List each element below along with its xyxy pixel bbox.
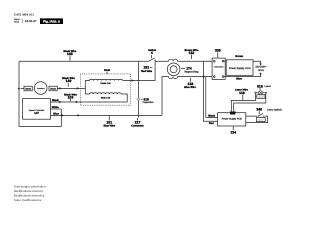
label Black (PCB lead)	[208, 114, 215, 117]
label 336	[215, 48, 221, 58]
svg-text:50Hz: 50Hz	[258, 69, 264, 72]
svg-text:Fig. /Abb. 6: Fig. /Abb. 6	[43, 20, 60, 24]
svg-text:Connector: Connector	[214, 66, 224, 69]
svg-text:134: 134	[230, 131, 236, 135]
wire: left brush lead	[21, 87, 24, 90]
wire: blue wire 151	[51, 114, 163, 117]
svg-text:Blue: Blue	[236, 77, 242, 80]
connector 336	[212, 58, 225, 79]
footer notes	[14, 185, 45, 202]
svg-text:Field: Field	[104, 69, 110, 72]
wire: laser switch loop	[246, 116, 268, 123]
svg-text:Capacitor: Capacitor	[143, 101, 154, 104]
svg-text:Stand: Stand	[14, 18, 20, 21]
label Brown	[235, 55, 243, 58]
label 133 Blue Wire	[184, 78, 196, 89]
svg-text:152: 152	[143, 66, 149, 70]
label 151 Blue Wire	[103, 116, 115, 128]
wire: blue wire 133 (ring bottom)	[162, 75, 214, 115]
svg-text:Modifications réservées: Modifications réservées	[14, 194, 44, 197]
label Red (PCB lead)	[209, 122, 214, 125]
wire: red feed to PCB	[203, 61, 217, 121]
label mains voltage 220-240V~ 50Hz	[255, 66, 267, 72]
figure label box Fig./Abb. 6	[40, 18, 63, 24]
wire: brown mains lead	[224, 61, 262, 65]
label 616 Laser	[257, 84, 271, 90]
svg-text:Brake Coil: Brake Coil	[101, 82, 111, 85]
svg-text:Änderungen vorbehalten: Änderungen vorbehalten	[14, 185, 45, 188]
svg-text:Speed Controller: Speed Controller	[29, 109, 45, 112]
svg-text:Modifications reserved: Modifications reserved	[14, 190, 43, 193]
svg-text:133: 133	[188, 82, 194, 86]
label 134	[230, 126, 236, 134]
label Black Wire 153	[64, 93, 77, 101]
label Laser Wire 118	[235, 89, 248, 101]
stand/issue date block	[14, 18, 37, 23]
label Black Wire 148	[63, 50, 76, 61]
battery DC 3V (laser switch)	[256, 118, 265, 122]
svg-text:Laser Switch: Laser Switch	[267, 108, 282, 111]
svg-text:Connector: Connector	[131, 125, 144, 128]
switch 4	[149, 58, 156, 61]
svg-text:DC 3V: DC 3V	[258, 96, 263, 98]
svg-text:Laser: Laser	[265, 85, 271, 88]
svg-text:Issue: Issue	[14, 21, 19, 24]
armature	[34, 82, 47, 95]
svg-text:Main Coil: Main Coil	[101, 97, 110, 100]
wire: blue mains lead	[224, 72, 262, 76]
svg-text:White: White	[52, 106, 59, 109]
label Switch 4	[148, 49, 156, 59]
label 340 Laser Switch	[256, 108, 281, 115]
svg-text:147: 147	[34, 112, 39, 115]
svg-text:Blue: Blue	[53, 112, 59, 115]
svg-text:132: 132	[189, 51, 195, 55]
svg-text:Blue Wire: Blue Wire	[103, 125, 115, 128]
svg-text:615: 615	[144, 97, 149, 101]
magnet ring 274	[167, 63, 180, 76]
speed controller 147	[23, 99, 51, 120]
svg-text:Salvo modificaciones: Salvo modificaciones	[14, 199, 41, 202]
field assembly dashed box	[81, 74, 131, 105]
svg-text:217: 217	[135, 121, 141, 125]
node: left edge junction	[18, 87, 21, 89]
wire: laser wire 118 pair	[231, 94, 265, 112]
laser 616	[255, 91, 267, 95]
svg-text:148: 148	[67, 52, 73, 56]
svg-text:Red: Red	[209, 122, 214, 125]
svg-text:Black: Black	[52, 99, 59, 102]
wire: black feed to PCB	[206, 77, 218, 118]
svg-text:Brush: Brush	[50, 87, 56, 90]
power supply cord	[226, 60, 253, 76]
svg-text:Red Wire: Red Wire	[141, 70, 152, 73]
svg-text:616: 616	[257, 84, 263, 88]
svg-text:4: 4	[151, 51, 153, 55]
svg-text:Black: Black	[208, 114, 215, 117]
svg-text:Armature: Armature	[37, 88, 44, 90]
wire: field splitter	[84, 81, 87, 95]
svg-text:340: 340	[256, 108, 262, 112]
label Field	[104, 69, 110, 74]
wire: brown wire 132 (ring top)	[155, 59, 214, 61]
label 152 Red Wire	[141, 66, 152, 73]
svg-text:336: 336	[215, 48, 221, 52]
capacitor 615	[137, 61, 140, 117]
svg-text:153: 153	[68, 95, 74, 99]
label Brown Wire 132	[184, 49, 198, 59]
wire: black wire 153 (controller to main coil)	[51, 94, 128, 103]
svg-text:118: 118	[239, 91, 245, 95]
label 274 Magnet Ring	[181, 67, 199, 74]
brush B1	[24, 86, 32, 91]
svg-text:18-03-07: 18-03-07	[25, 20, 37, 23]
svg-text:149: 149	[66, 79, 72, 83]
brush B2	[49, 86, 57, 91]
label Black Wire 149	[62, 77, 75, 87]
main coil	[85, 93, 121, 99]
svg-text:Power Supply Cord: Power Supply Cord	[229, 67, 251, 70]
brake coil	[85, 79, 122, 84]
svg-text:220-240V~: 220-240V~	[255, 66, 267, 69]
title part number	[14, 13, 34, 16]
power supply PCB 134	[218, 112, 246, 127]
svg-text:151: 151	[106, 121, 112, 125]
connector 217 node	[131, 118, 144, 127]
wire: left return loop	[19, 61, 61, 126]
label 615 Capacitor	[141, 97, 154, 104]
wire: black wire 148 (top supply wire)	[19, 60, 149, 63]
svg-text:Brush: Brush	[25, 87, 31, 90]
svg-text:Power Supply PCB: Power Supply PCB	[222, 117, 242, 120]
svg-text:274: 274	[186, 67, 192, 71]
battery DC 3V (laser)	[257, 95, 265, 99]
svg-text:3 601 M03 101: 3 601 M03 101	[14, 13, 34, 16]
wire: white wire	[51, 108, 62, 111]
laser switch 340	[258, 113, 265, 116]
svg-text:]: ]	[22, 18, 23, 23]
svg-text:Blue Wire: Blue Wire	[184, 86, 196, 89]
svg-text:Brown: Brown	[235, 55, 243, 58]
svg-text:DC 3V: DC 3V	[258, 119, 263, 121]
wire: black wire 149 (brush to field)	[57, 87, 85, 90]
label Black (controller lead)	[52, 99, 59, 102]
svg-text:Magnet Ring: Magnet Ring	[185, 70, 199, 73]
label Blue (controller lead)	[53, 112, 59, 115]
label White	[52, 106, 59, 109]
label Blue (mains)	[236, 77, 242, 80]
wire: red wire 152 (brake coil to switch)	[123, 60, 156, 82]
